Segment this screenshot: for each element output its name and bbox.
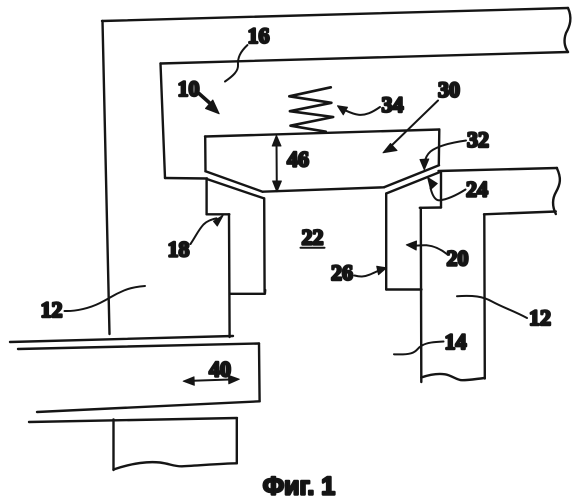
arrowhead 26: [377, 266, 387, 274]
arrowhead 32: [420, 159, 429, 170]
dimension arrow 46: [276, 141, 278, 187]
svg-text:24: 24: [466, 177, 488, 202]
plate 40 right edge: [258, 344, 261, 402]
plate 40 bottom edge: [37, 401, 260, 412]
leader 32: [424, 141, 466, 164]
svg-text:22: 22: [302, 225, 324, 250]
beam 16 right break line: [564, 8, 570, 52]
valve 30 top edge: [205, 130, 439, 137]
valve 30 right edge: [438, 130, 441, 166]
seat land lower-left edge: [228, 214, 231, 337]
seat land left edge: [205, 179, 207, 215]
svg-text:34: 34: [382, 92, 404, 117]
leader 24: [431, 188, 466, 200]
lower block right edge: [236, 419, 238, 464]
svg-text:12: 12: [529, 305, 551, 330]
leader 12 left: [65, 286, 146, 311]
underline 22: [301, 247, 325, 249]
housing left wall: [103, 21, 110, 334]
svg-text:32: 32: [467, 127, 489, 152]
seat land right edge: [263, 198, 266, 292]
leader 18: [191, 218, 217, 244]
valve 30 bottom edge: [263, 187, 384, 191]
leader 14: [394, 342, 444, 355]
slab 24 bottom edge: [484, 212, 556, 215]
svg-text:20: 20: [447, 246, 469, 271]
svg-text:30: 30: [438, 77, 460, 102]
pillar 14 left edge: [420, 208, 423, 382]
notch horizontal: [420, 206, 441, 209]
svg-text:18: 18: [168, 237, 190, 262]
svg-text:16: 16: [248, 23, 270, 48]
housing beam 16 bottom edge: [161, 52, 569, 64]
arrowhead 18: [214, 215, 224, 226]
pillar 14 right edge: [483, 214, 486, 378]
lower block left edge: [112, 420, 114, 471]
seat face 18 slant: [207, 179, 264, 198]
svg-text:Фиг. 1: Фиг. 1: [263, 473, 336, 500]
lower plate top edge: [29, 418, 237, 422]
pillar 20 left edge: [385, 193, 387, 289]
lower block wavy bottom break: [114, 462, 237, 469]
valve 30 left edge: [204, 137, 207, 172]
spring 34: [289, 87, 333, 131]
valve 30 bottom-right slant: [384, 165, 439, 187]
arrowhead 30: [383, 144, 397, 153]
leader 26: [355, 270, 380, 276]
slab 24 right break line: [553, 168, 560, 214]
housing lower block bottom edge: [10, 336, 233, 342]
slab 24 top edge: [439, 168, 558, 171]
svg-text:46: 46: [287, 147, 309, 172]
plate 40 top edge: [18, 344, 259, 350]
leader 16: [225, 45, 248, 82]
svg-text:10: 10: [178, 76, 200, 101]
arrowhead 20: [406, 241, 416, 250]
chamber floor: [165, 177, 207, 180]
leader 20: [416, 245, 448, 254]
housing inner wall: [161, 64, 166, 179]
svg-text:12: 12: [41, 297, 63, 322]
svg-text:40: 40: [209, 357, 231, 382]
leader 30: [389, 101, 438, 149]
arrowhead 24: [428, 177, 438, 189]
notch vertical under seat: [440, 173, 442, 208]
arrowhead 34: [338, 106, 348, 115]
svg-text:14: 14: [445, 329, 467, 354]
valve 30 bottom-left slant: [206, 171, 263, 191]
seat land bottom: [230, 290, 265, 294]
leader 12 right: [457, 296, 527, 318]
seat land step: [207, 213, 230, 215]
housing beam 16 top edge: [102, 8, 568, 21]
seat face 24 slant: [387, 172, 441, 193]
leader 34: [344, 107, 381, 115]
pillar 20 bottom edge: [386, 288, 421, 290]
pillar 14 wavy bottom break: [421, 374, 485, 380]
svg-text:26: 26: [331, 260, 353, 285]
arrow 10: [199, 94, 213, 106]
dimension arrow 40: [189, 379, 234, 381]
